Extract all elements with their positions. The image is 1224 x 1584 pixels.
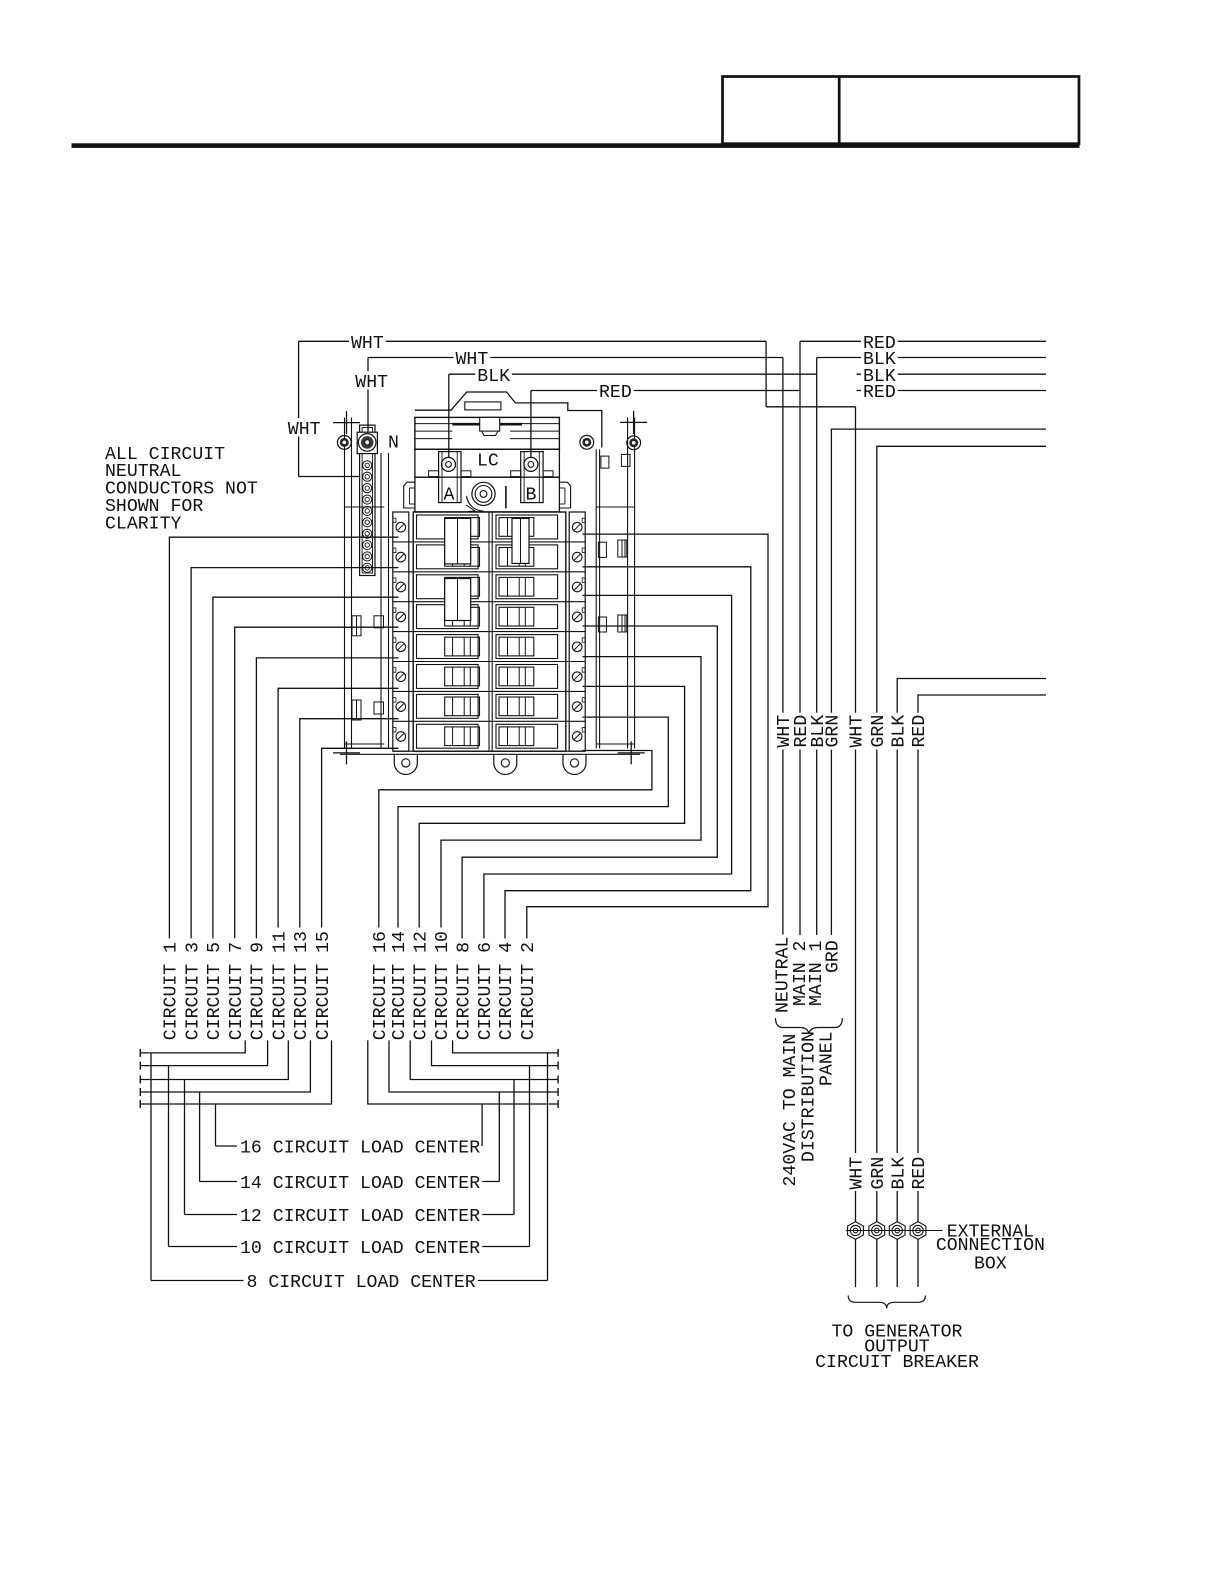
bus right 16 drop bbox=[481, 1104, 483, 1146]
wire circuit 10 bbox=[441, 657, 701, 928]
label CIRCUIT 16 bbox=[371, 929, 387, 1042]
wire circuit 11 bbox=[278, 688, 398, 927]
wire WHT lug feed horizontal bbox=[368, 357, 783, 359]
main breaker bar left 1-2 bbox=[445, 518, 471, 564]
mounting cross top-right bbox=[620, 421, 647, 423]
screw right rail outer bbox=[627, 436, 641, 450]
band notch bbox=[480, 417, 500, 431]
svg-text:WHT: WHT bbox=[848, 715, 868, 748]
svg-text:CIRCUIT 16: CIRCUIT 16 bbox=[371, 931, 391, 1040]
neutral lug box bbox=[357, 432, 377, 453]
svg-text:8 CIRCUIT LOAD CENTER: 8 CIRCUIT LOAD CENTER bbox=[247, 1273, 476, 1293]
brace generator bbox=[848, 1296, 925, 1309]
label GRN gen lower bbox=[869, 1155, 885, 1192]
grid center divider bbox=[488, 512, 490, 751]
screw right rail inner bbox=[580, 435, 594, 449]
center screw bbox=[472, 482, 495, 505]
svg-text:12 CIRCUIT LOAD CENTER: 12 CIRCUIT LOAD CENTER bbox=[240, 1207, 480, 1227]
bus left 12 terminator bbox=[139, 1076, 141, 1084]
label RED main bbox=[792, 713, 808, 750]
rail right inner pair bbox=[595, 449, 597, 748]
side bracket right bbox=[559, 482, 570, 508]
terminal A tabs bbox=[429, 471, 439, 477]
rail left outer pair bbox=[344, 418, 346, 749]
wire circuit 8 bbox=[462, 626, 717, 938]
wire terminal 1 below bbox=[855, 1240, 857, 1288]
label CIRCUIT 5 bbox=[205, 940, 221, 1042]
screw left rail bbox=[337, 436, 351, 450]
label NEUTRAL bbox=[773, 935, 789, 1015]
bus right 12 drop bbox=[513, 1080, 515, 1215]
bus left 12 drop bbox=[184, 1080, 186, 1215]
terminal A box bbox=[439, 452, 461, 503]
bus left 16 bbox=[140, 1040, 331, 1104]
label CIRCUIT 10 bbox=[433, 929, 449, 1042]
svg-text:CIRCUIT 13: CIRCUIT 13 bbox=[292, 931, 312, 1040]
bus right 12 terminator bbox=[557, 1076, 559, 1084]
top horizontal rule bbox=[72, 143, 1080, 148]
bus right 16 bbox=[368, 1040, 558, 1104]
wire WHT neutral feed horizontal bbox=[299, 340, 766, 342]
svg-text:CIRCUIT 2: CIRCUIT 2 bbox=[519, 942, 539, 1040]
title block box bbox=[723, 77, 1080, 144]
label BLK far 2 bbox=[861, 365, 898, 383]
wire RED B feed horizontal bbox=[531, 390, 800, 392]
wire WHT lug feed vertical bbox=[367, 358, 369, 433]
label WHT on vertical 2 bbox=[286, 418, 323, 436]
svg-text:14 CIRCUIT LOAD CENTER: 14 CIRCUIT LOAD CENTER bbox=[240, 1174, 480, 1194]
rail tab left b bbox=[374, 616, 384, 628]
svg-text:16 CIRCUIT LOAD CENTER: 16 CIRCUIT LOAD CENTER bbox=[240, 1139, 480, 1159]
rail left inner pair bbox=[380, 453, 382, 749]
rail tab right b bbox=[598, 617, 606, 632]
wire terminal 2 above bbox=[876, 1191, 878, 1222]
bus left 8 terminator bbox=[139, 1049, 141, 1057]
wire circuit 3 bbox=[191, 568, 398, 939]
center screw arc bbox=[467, 496, 484, 511]
label CIRCUIT 12 bbox=[411, 929, 427, 1042]
svg-text:CIRCUIT 1: CIRCUIT 1 bbox=[162, 942, 182, 1040]
bus left 8 drop bbox=[150, 1053, 152, 1281]
svg-text:CIRCUIT 6: CIRCUIT 6 bbox=[476, 942, 496, 1040]
wire BLK A feed vertical bbox=[448, 374, 450, 458]
label MAIN 2 bbox=[791, 938, 807, 1008]
bus left 14 drop bbox=[199, 1092, 201, 1182]
bus right 10 terminator bbox=[557, 1062, 559, 1070]
rail tab right a bbox=[598, 542, 606, 557]
wire WHT jog vertical bbox=[765, 341, 767, 407]
label BLK gen upper bbox=[889, 713, 905, 750]
wire WHT neutral feed to bar bbox=[299, 476, 360, 478]
wire WHT generator vertical bbox=[855, 407, 857, 1153]
bus right 14 drop bbox=[498, 1092, 500, 1182]
label CIRCUIT 3 bbox=[183, 940, 199, 1042]
bus right 14 bbox=[389, 1040, 558, 1092]
terminal row line bbox=[846, 1230, 943, 1232]
band dark lintel bbox=[452, 423, 522, 426]
wire RED far stub bbox=[857, 390, 1047, 392]
rail tab left c bbox=[352, 700, 361, 720]
terminal B screw bbox=[524, 457, 538, 471]
cap slot bbox=[465, 402, 501, 410]
wire RED B feed vertical bbox=[530, 391, 532, 459]
wire WHT jog horizontal bbox=[766, 406, 855, 408]
svg-text:A: A bbox=[444, 486, 455, 506]
svg-text:GRN: GRN bbox=[824, 715, 844, 748]
wire terminal 4 below bbox=[917, 1240, 919, 1288]
svg-text:WHT: WHT bbox=[288, 420, 321, 440]
svg-text:GRN: GRN bbox=[869, 1157, 889, 1190]
svg-text:10 CIRCUIT LOAD CENTER: 10 CIRCUIT LOAD CENTER bbox=[240, 1239, 480, 1259]
wire circuit 13 bbox=[300, 719, 399, 928]
breakers bbox=[417, 515, 479, 539]
svg-text:RED: RED bbox=[599, 383, 632, 403]
wire 10 circuit load center tail bbox=[482, 1246, 529, 1248]
wire circuit 14 bbox=[398, 717, 668, 927]
wire circuit 15 bbox=[322, 748, 399, 927]
label RED gen upper bbox=[910, 713, 926, 750]
svg-text:CIRCUIT 15: CIRCUIT 15 bbox=[314, 931, 334, 1040]
svg-text:CIRCUIT 7: CIRCUIT 7 bbox=[227, 942, 247, 1040]
bus left 8 bbox=[140, 1040, 245, 1053]
wire terminal 2 below bbox=[876, 1240, 878, 1288]
label CIRCUIT 8 bbox=[454, 940, 470, 1042]
label RED far 1 bbox=[861, 332, 898, 350]
svg-text:CONNECTION: CONNECTION bbox=[936, 1236, 1045, 1256]
wire 16 circuit load center lead bbox=[216, 1145, 238, 1147]
mounting cross top-left bbox=[333, 422, 360, 424]
wire WHT neutral feed vertical bbox=[298, 341, 300, 476]
terminal 2 rings bbox=[872, 1225, 882, 1235]
brace main panel bbox=[776, 1018, 843, 1034]
svg-text:BOX: BOX bbox=[974, 1255, 1007, 1275]
mounting cross bottom-left bbox=[333, 752, 360, 754]
label RED far 2 bbox=[861, 381, 898, 399]
wire 12 circuit load center tail bbox=[482, 1214, 514, 1216]
svg-text:240VAC TO MAIN: 240VAC TO MAIN bbox=[781, 1034, 801, 1187]
wire 10 circuit load center lead bbox=[169, 1246, 238, 1248]
rail tie left bbox=[345, 506, 385, 508]
main breaker bar right 1-2 bbox=[512, 518, 529, 563]
svg-text:BLK: BLK bbox=[889, 1157, 909, 1190]
wire 8 circuit load center lead bbox=[151, 1280, 244, 1282]
wire RED main2 top bbox=[800, 340, 1046, 342]
svg-text:CIRCUIT 14: CIRCUIT 14 bbox=[390, 931, 410, 1040]
label WHT gen lower bbox=[847, 1155, 863, 1192]
svg-text:CIRCUIT 11: CIRCUIT 11 bbox=[270, 931, 290, 1040]
label CIRCUIT 2 bbox=[519, 940, 535, 1042]
wire circuit 12 bbox=[419, 686, 684, 927]
svg-text:CLARITY: CLARITY bbox=[105, 514, 181, 534]
svg-text:LC: LC bbox=[477, 451, 499, 471]
bus right 14 terminator bbox=[557, 1088, 559, 1096]
label GRN main bbox=[823, 713, 839, 750]
wire BLK main vertical bbox=[816, 358, 818, 936]
grid screws bbox=[396, 522, 406, 532]
wire terminal 3 above bbox=[896, 1191, 898, 1222]
label BLK near bbox=[475, 365, 512, 383]
grid outer bbox=[413, 512, 566, 751]
bus left 10 terminator bbox=[139, 1062, 141, 1070]
label CIRCUIT 13 bbox=[292, 929, 308, 1042]
wire WHT main vertical bbox=[782, 358, 784, 936]
label MAIN 1 bbox=[807, 938, 823, 1008]
title block divider bbox=[838, 77, 841, 144]
svg-text:CIRCUIT 4: CIRCUIT 4 bbox=[497, 942, 517, 1040]
svg-text:GRN: GRN bbox=[869, 715, 889, 748]
wire circuit 1 bbox=[169, 537, 398, 938]
label CIRCUIT 6 bbox=[476, 940, 492, 1042]
bus right 8 terminator bbox=[557, 1049, 559, 1057]
label WHT 2 bbox=[454, 348, 491, 366]
terminal 3 rings bbox=[892, 1225, 902, 1235]
wire 14 circuit load center tail bbox=[482, 1181, 499, 1183]
label CIRCUIT 9 bbox=[248, 940, 264, 1042]
terminal 1 rings bbox=[850, 1225, 860, 1235]
wire GRN generator bbox=[877, 446, 1046, 1153]
wire 16 circuit load center tail bbox=[481, 1145, 483, 1147]
wire 12 circuit load center lead bbox=[185, 1214, 238, 1216]
svg-text:CIRCUIT 5: CIRCUIT 5 bbox=[205, 942, 225, 1040]
label WHT 1 bbox=[349, 332, 386, 350]
svg-text:WHT: WHT bbox=[848, 1157, 868, 1190]
note: all circuit neutral conductors not shown for clarity bbox=[105, 445, 258, 535]
wire circuit 9 bbox=[256, 658, 398, 939]
svg-text:RED: RED bbox=[863, 383, 896, 403]
band lines right bbox=[510, 423, 559, 425]
label CIRCUIT 11 bbox=[270, 929, 286, 1042]
wire BLK far stub bbox=[857, 373, 1047, 375]
svg-text:BLK: BLK bbox=[889, 715, 909, 748]
bus left 16 drop bbox=[215, 1104, 217, 1146]
grid left screw strip bbox=[393, 512, 409, 751]
grid bottom double bbox=[393, 750, 585, 752]
bus left 14 terminator bbox=[139, 1088, 141, 1096]
bus right 10 bbox=[432, 1040, 559, 1065]
housing top cap bbox=[415, 392, 602, 448]
bus right 16 terminator bbox=[557, 1100, 559, 1108]
svg-text:CIRCUIT 3: CIRCUIT 3 bbox=[183, 942, 203, 1040]
terminal B box bbox=[521, 452, 543, 503]
mid tick bbox=[505, 486, 507, 508]
label BLK gen lower bbox=[889, 1155, 905, 1192]
svg-text:CIRCUIT 9: CIRCUIT 9 bbox=[249, 942, 269, 1040]
bus right 8 drop bbox=[547, 1053, 549, 1281]
label GRN gen upper bbox=[869, 713, 885, 750]
LC strip bbox=[415, 449, 560, 477]
svg-text:BLK: BLK bbox=[477, 367, 510, 387]
wire 8 circuit load center tail bbox=[478, 1280, 548, 1282]
svg-text:CIRCUIT BREAKER: CIRCUIT BREAKER bbox=[815, 1353, 979, 1373]
wire circuit 16 bbox=[379, 751, 652, 928]
wire terminal 3 below bbox=[896, 1240, 898, 1288]
rail tab left a bbox=[352, 616, 361, 636]
wire BLK main1 top bbox=[817, 357, 1046, 359]
label CIRCUIT 14 bbox=[390, 929, 406, 1042]
mounting feet bbox=[394, 754, 417, 774]
wire RED main vertical bbox=[799, 341, 801, 935]
neutral bar body bbox=[360, 425, 375, 575]
bus right 10 drop bbox=[529, 1066, 531, 1247]
bus right 8 bbox=[453, 1040, 558, 1053]
rail tie right bbox=[596, 506, 634, 508]
wire circuit 4 bbox=[505, 567, 751, 939]
wire circuit 2 bbox=[527, 534, 768, 938]
label CIRCUIT 15 bbox=[313, 929, 329, 1042]
terminal A screw bbox=[442, 457, 456, 471]
svg-text:CIRCUIT 12: CIRCUIT 12 bbox=[411, 931, 431, 1040]
label WHT on vertical bbox=[353, 371, 390, 389]
label GRD bbox=[823, 938, 839, 975]
bus left 16 terminator bbox=[139, 1100, 141, 1108]
wire 14 circuit load center lead bbox=[200, 1181, 237, 1183]
svg-text:WHT: WHT bbox=[355, 373, 388, 393]
terminal B tabs bbox=[511, 471, 521, 477]
mounting cross bottom-right bbox=[618, 752, 645, 754]
band lines left bbox=[415, 423, 452, 425]
side bracket left bbox=[404, 482, 415, 508]
svg-text:GRD: GRD bbox=[824, 940, 844, 973]
rail tab right c bbox=[601, 456, 609, 468]
neutral lug screw bbox=[358, 434, 376, 452]
wire GRN main grd bbox=[831, 429, 1046, 935]
bus left 10 drop bbox=[168, 1066, 170, 1247]
wire BLK A feed horizontal bbox=[449, 373, 817, 375]
svg-text:WHT: WHT bbox=[351, 334, 384, 354]
bus left 12 bbox=[140, 1040, 288, 1079]
label RED gen lower bbox=[910, 1155, 926, 1192]
wire circuit 6 bbox=[484, 595, 732, 938]
svg-text:RED: RED bbox=[910, 715, 930, 748]
mid housing bbox=[415, 477, 560, 512]
wire circuit 5 bbox=[213, 597, 399, 938]
svg-text:B: B bbox=[526, 486, 537, 506]
svg-text:CIRCUIT 8: CIRCUIT 8 bbox=[454, 942, 474, 1040]
grid row dividers bbox=[393, 541, 585, 543]
label CIRCUIT 4 bbox=[497, 940, 513, 1042]
main breaker bar left 3-4 bbox=[445, 579, 471, 621]
rail right outer pair bbox=[627, 418, 629, 749]
neutral bar screws bbox=[363, 461, 372, 470]
svg-text:N: N bbox=[388, 434, 399, 454]
wire terminal 1 above bbox=[855, 1191, 857, 1222]
label CIRCUIT 7 bbox=[227, 940, 243, 1042]
svg-text:PANEL: PANEL bbox=[818, 1031, 838, 1086]
svg-text:DISTRIBUTION: DISTRIBUTION bbox=[800, 1031, 820, 1162]
load center assembly bbox=[333, 392, 647, 775]
terminal 4 rings bbox=[913, 1225, 923, 1235]
grid right screw strip bbox=[569, 512, 585, 751]
bus left 14 bbox=[140, 1040, 310, 1092]
terminal hex bodies bbox=[848, 1222, 864, 1240]
wire terminal 4 above bbox=[917, 1191, 919, 1222]
label BLK main bbox=[809, 713, 825, 750]
label WHT main bbox=[775, 713, 791, 750]
svg-text:RED: RED bbox=[910, 1157, 930, 1190]
wire RED generator bbox=[918, 695, 1046, 1153]
svg-text:CIRCUIT 10: CIRCUIT 10 bbox=[433, 931, 453, 1040]
bus left 10 bbox=[140, 1040, 267, 1065]
wire circuit 7 bbox=[235, 627, 399, 938]
bus right 12 bbox=[410, 1040, 558, 1079]
label WHT gen upper bbox=[847, 713, 863, 750]
housing band bbox=[415, 417, 560, 449]
label RED near bbox=[597, 381, 634, 399]
label CIRCUIT 1 bbox=[161, 940, 177, 1042]
wire BLK generator bbox=[897, 679, 1046, 1154]
label BLK far 1 bbox=[861, 348, 898, 366]
